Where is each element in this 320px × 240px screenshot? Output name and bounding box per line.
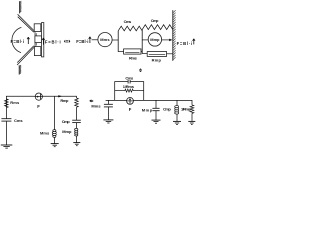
svg-text:Mmp: Mmp <box>142 107 153 112</box>
inductor Mms <box>52 130 56 138</box>
wire Mms to ground <box>54 137 56 143</box>
wire Cms to ground <box>5 121 7 145</box>
ground (Cmp coil) <box>173 120 181 122</box>
speaker baffle top wall <box>19 1 21 13</box>
speaker cone upper wall <box>18 14 35 32</box>
capacitor Cms (right circuit) <box>127 80 129 84</box>
wire source to mass Mms <box>92 39 98 41</box>
svg-text:Rms: Rms <box>10 100 20 105</box>
svg-text:Mms: Mms <box>91 103 101 108</box>
force arrow at magnet <box>42 38 44 45</box>
svg-text:Rms: Rms <box>129 56 138 61</box>
wire Rms to Cms <box>5 108 7 119</box>
resistor 1/Rms horizontal <box>115 90 125 92</box>
magnet pole piece <box>35 36 42 43</box>
speaker baffle bottom wall <box>18 65 20 74</box>
stub rail to capacitor Mmp <box>155 100 157 108</box>
damper Rmp wire left <box>142 53 147 55</box>
capacitor Cmp <box>72 119 81 121</box>
svg-text:Cms: Cms <box>14 118 23 123</box>
svg-text:Rmp: Rmp <box>152 58 162 63</box>
svg-text:F: F <box>129 107 132 112</box>
wire node to mass Mmp <box>142 39 148 41</box>
force arrow at mechanical source <box>89 37 91 43</box>
ground (1/Rmp) <box>188 120 195 122</box>
source F circle (right) <box>127 98 134 105</box>
magnet back plate <box>42 23 44 57</box>
svg-text:Mmp: Mmp <box>150 37 160 42</box>
ground (Mmp branch) <box>73 142 80 144</box>
current direction arrow on rail <box>58 95 62 97</box>
spring Cms <box>118 26 142 31</box>
node vertical between blocks <box>141 30 143 54</box>
ground (Mms branch) <box>51 143 59 145</box>
wire Mmp to ground <box>76 136 78 143</box>
speaker voice coil windings <box>35 33 37 38</box>
spring Cmp <box>142 25 173 30</box>
source F circle <box>35 93 42 100</box>
ground (Mms cap) <box>103 119 113 121</box>
svg-text:F=Bl·i: F=Bl·i <box>45 39 61 44</box>
wire Mms cap to ground <box>107 107 109 120</box>
svg-text:F=Bl·i: F=Bl·i <box>11 39 25 44</box>
svg-text:Cms: Cms <box>124 19 132 24</box>
resistor Rmp vertical <box>75 98 79 107</box>
resistor 1/Rmp vertical <box>190 105 194 114</box>
frame left vertical <box>117 31 119 52</box>
svg-text:Cmp: Cmp <box>151 18 159 23</box>
damper Rmp box <box>147 52 166 57</box>
equivalence arrow between circuits <box>91 100 93 101</box>
damper Rms box <box>124 49 141 54</box>
ground (left branch) <box>1 144 13 146</box>
svg-text:Mmp: Mmp <box>62 129 72 134</box>
magnet bottom plate <box>34 47 40 56</box>
capacitor Mms (right circuit) <box>104 103 113 105</box>
equivalence arrow speaker to mechanical <box>66 41 68 42</box>
stub rail to capacitor Mms <box>107 100 109 104</box>
wire Mms to frame <box>112 39 118 41</box>
resistor Rms vertical <box>5 99 9 108</box>
inductor Cmp (right circuit) <box>175 106 179 115</box>
wire Cmp coil to ground <box>176 114 178 121</box>
wire Mmp to wall with arrow <box>162 39 171 41</box>
ground (Mmp cap) <box>152 119 161 121</box>
svg-text:Cmp: Cmp <box>163 107 171 112</box>
speaker cone lower wall <box>17 46 35 65</box>
wire Rmp to Cmp <box>76 107 78 120</box>
equivalence arrow mechanical to circuit (up-down) <box>140 70 141 71</box>
capacitor Cms <box>1 118 11 120</box>
svg-text:F: F <box>37 104 40 109</box>
wire Cmp to Mmp <box>76 123 78 129</box>
damper Rms wire left <box>118 51 123 53</box>
mass Mmp circle <box>148 33 161 46</box>
wire Mmp cap to ground <box>155 111 157 120</box>
speaker dust cap <box>12 27 21 52</box>
damper Rms wire right <box>141 51 142 53</box>
parallel block frame <box>115 82 144 101</box>
damper Rmp wire right <box>167 53 173 55</box>
svg-text:1/Rms: 1/Rms <box>123 84 135 89</box>
force arrow at cone <box>27 37 29 44</box>
wire rail to inductor Cmp <box>176 100 178 105</box>
svg-text:Rmp: Rmp <box>60 98 69 103</box>
magnet top plate <box>34 24 41 32</box>
wire rail to inductor Mms <box>54 96 56 129</box>
svg-text:Cmp: Cmp <box>62 119 71 124</box>
svg-text:F=Bl·i: F=Bl·i <box>177 41 193 46</box>
capacitor Mmp (right circuit) <box>152 107 159 109</box>
svg-text:Mms: Mms <box>100 37 110 42</box>
wire top rail left circuit <box>6 96 76 107</box>
wire rail right circuit <box>106 100 192 105</box>
mass Mms circle <box>98 33 112 47</box>
speaker voice coil former <box>34 31 36 47</box>
svg-text:Cms: Cms <box>125 75 134 80</box>
wire 1/Rmp to ground <box>191 113 193 121</box>
svg-text:Mms: Mms <box>40 131 50 136</box>
svg-text:1/Rmp: 1/Rmp <box>181 106 192 111</box>
svg-text:F=Bl·i: F=Bl·i <box>76 39 88 44</box>
inductor Mmp <box>75 128 78 136</box>
wall <box>172 10 174 61</box>
